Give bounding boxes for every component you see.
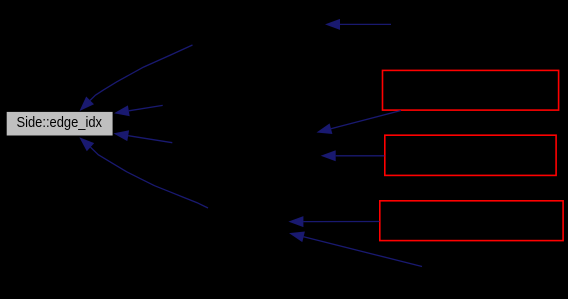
svg-text:Side::edge_idx: Side::edge_idx — [17, 115, 103, 131]
edge: arrow D from red box R2 left to hidden middle node — [321, 150, 385, 161]
node Side::edge_idx (current function, grey) — [6, 111, 113, 136]
edge: arrow C from red box R1 bottom to hidden middle node — [317, 111, 402, 135]
edge: arrow E from red box R3 left to hidden bottom node — [288, 216, 379, 227]
edge: big top curve into Side::edge_idx top — [80, 45, 193, 111]
edge: top arrow (hidden node to hidden node) — [325, 19, 391, 30]
node (truncated, red) box R1 — [383, 70, 559, 110]
edge: arrow A into node top-right corner — [114, 105, 163, 116]
edge: arrow B into node right edge lower — [113, 130, 172, 142]
edge: big bottom curve into node bottom edge — [79, 137, 208, 208]
edge: arrow F from hidden bottom-right node to hidden bottom node — [289, 232, 422, 267]
node (truncated, red) box R2 — [385, 135, 556, 175]
node (truncated, red) box R3 — [380, 201, 563, 241]
